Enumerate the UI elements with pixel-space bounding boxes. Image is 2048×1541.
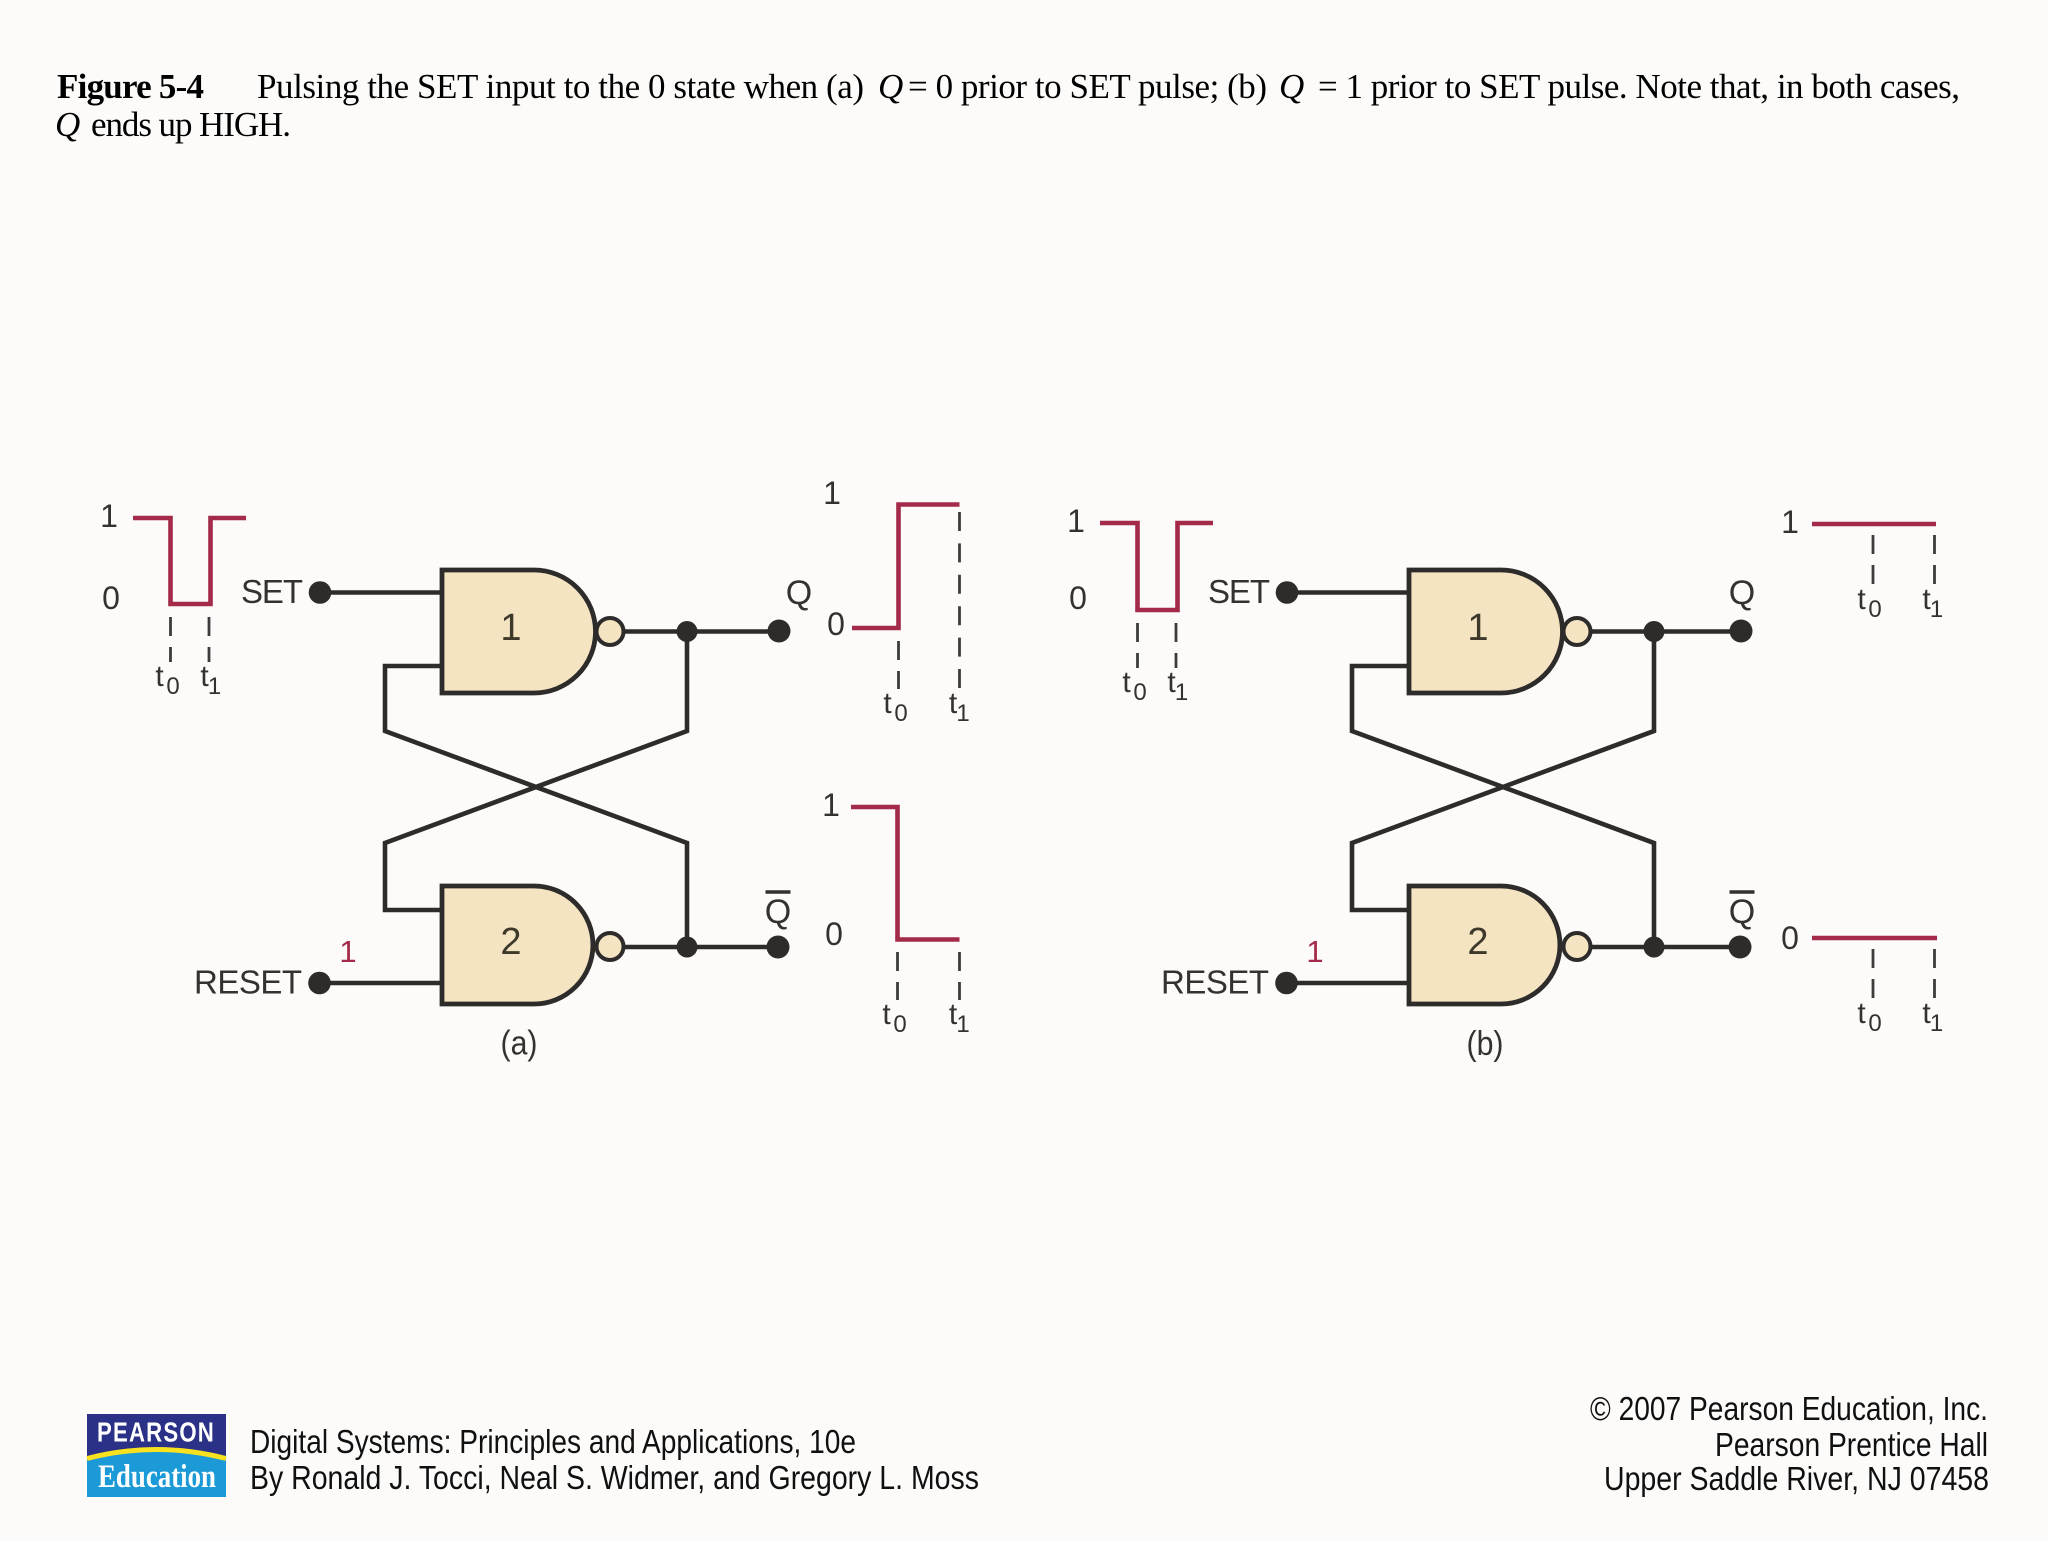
- svg-text:By Ronald J. Tocci, Neal S. Wi: By Ronald J. Tocci, Neal S. Widmer, and …: [250, 1459, 979, 1496]
- svg-text:t: t: [883, 687, 892, 720]
- svg-text:SET: SET: [241, 573, 303, 610]
- svg-text:1: 1: [208, 673, 221, 700]
- svg-text:1: 1: [500, 607, 521, 649]
- svg-text:0: 0: [893, 1011, 906, 1038]
- svg-text:Q: Q: [786, 574, 812, 612]
- svg-text:ends up HIGH.: ends up HIGH.: [91, 105, 291, 144]
- svg-text:1: 1: [1067, 503, 1085, 539]
- svg-text:1: 1: [956, 700, 969, 727]
- svg-text:1: 1: [956, 1011, 969, 1038]
- svg-text:Q: Q: [1729, 574, 1755, 612]
- svg-text:0: 0: [102, 580, 120, 616]
- svg-text:Q: Q: [1279, 67, 1304, 106]
- svg-text:(b): (b): [1467, 1025, 1504, 1063]
- svg-text:0: 0: [827, 606, 845, 642]
- svg-text:t: t: [882, 998, 891, 1031]
- svg-text:1: 1: [823, 475, 841, 511]
- svg-text:1: 1: [1467, 607, 1488, 649]
- svg-text:0: 0: [1781, 920, 1799, 956]
- svg-text:Pearson Prentice Hall: Pearson Prentice Hall: [1715, 1426, 1988, 1463]
- svg-text:2: 2: [1467, 921, 1488, 963]
- svg-text:SET: SET: [1208, 573, 1270, 610]
- svg-text:1: 1: [1306, 934, 1323, 969]
- svg-text:1: 1: [1930, 1010, 1943, 1037]
- svg-text:1: 1: [1781, 504, 1799, 540]
- svg-text:Education: Education: [98, 1459, 216, 1495]
- svg-text:RESET: RESET: [1161, 964, 1269, 1001]
- svg-text:0: 0: [894, 700, 907, 727]
- svg-text:Q: Q: [878, 67, 903, 106]
- svg-text:Digital Systems: Principles an: Digital Systems: Principles and Applicat…: [250, 1423, 856, 1460]
- svg-text:Figure 5-4: Figure 5-4: [57, 67, 204, 106]
- svg-text:1: 1: [100, 498, 118, 534]
- svg-text:Pulsing the SET input to the 0: Pulsing the SET input to the 0 state whe…: [257, 67, 864, 106]
- svg-text:0: 0: [1868, 596, 1881, 623]
- svg-text:t: t: [1857, 997, 1866, 1030]
- svg-text:1: 1: [339, 934, 356, 969]
- svg-text:Q: Q: [55, 105, 80, 144]
- svg-text:0: 0: [1133, 679, 1146, 706]
- svg-text:Q: Q: [1729, 893, 1755, 931]
- svg-text:= 0 prior to SET pulse; (b): = 0 prior to SET pulse; (b): [908, 67, 1267, 106]
- svg-text:t: t: [1122, 666, 1131, 699]
- svg-text:Q: Q: [765, 893, 791, 931]
- svg-text:2: 2: [500, 921, 521, 963]
- svg-text:(a): (a): [501, 1025, 538, 1063]
- svg-text:0: 0: [1069, 580, 1087, 616]
- svg-text:1: 1: [1930, 596, 1943, 623]
- svg-text:1: 1: [822, 787, 840, 823]
- svg-text:Upper Saddle River, NJ 07458: Upper Saddle River, NJ 07458: [1604, 1460, 1989, 1497]
- svg-text:1: 1: [1175, 679, 1188, 706]
- svg-text:t: t: [1857, 583, 1866, 616]
- svg-text:© 2007 Pearson Education, Inc.: © 2007 Pearson Education, Inc.: [1590, 1390, 1988, 1427]
- svg-text:0: 0: [825, 916, 843, 952]
- svg-text:t: t: [155, 660, 164, 693]
- svg-text:0: 0: [1868, 1010, 1881, 1037]
- svg-text:= 1 prior to SET pulse. Note t: = 1 prior to SET pulse. Note that, in bo…: [1318, 67, 1960, 106]
- svg-text:0: 0: [166, 673, 179, 700]
- svg-text:RESET: RESET: [194, 964, 302, 1001]
- svg-text:PEARSON: PEARSON: [97, 1417, 215, 1448]
